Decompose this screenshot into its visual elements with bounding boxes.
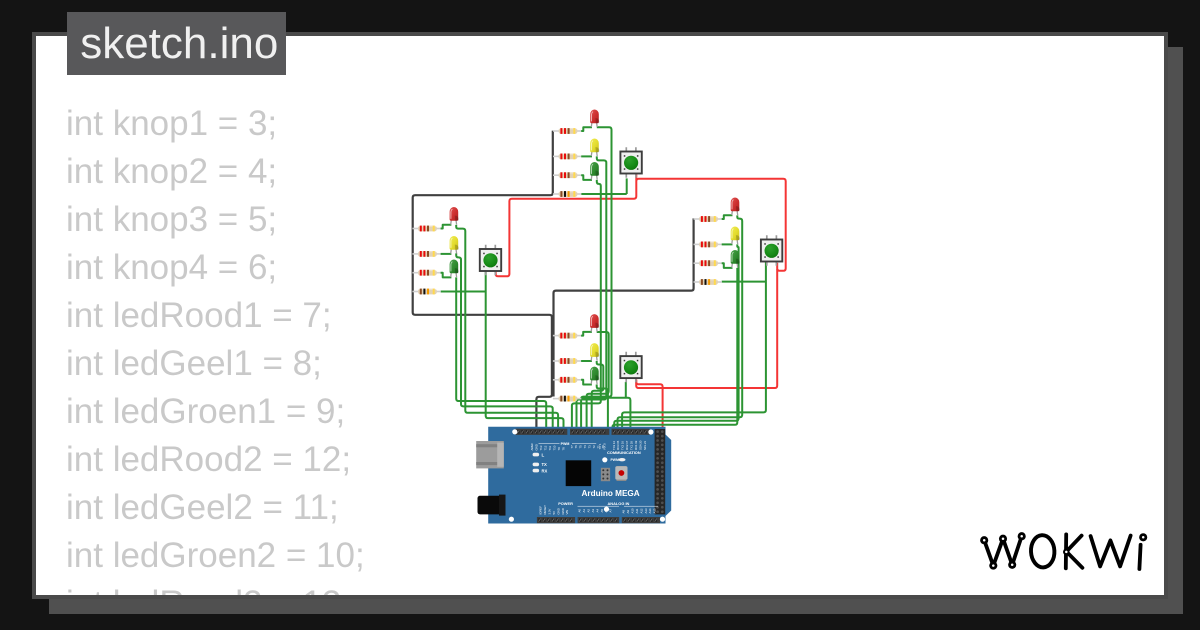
svg-text:T7: T7	[570, 445, 574, 449]
svg-text:TX3 14: TX3 14	[612, 441, 616, 450]
wire 5V left button to top button to right button	[496, 179, 786, 277]
resistor R3-right 220ohm	[694, 260, 722, 266]
svg-text:A11: A11	[635, 508, 639, 513]
yellow LED right	[731, 227, 740, 245]
wire top yellow-LED to pin	[577, 156, 607, 431]
wire top button pin	[626, 178, 628, 194]
svg-text:A9: A9	[626, 510, 630, 514]
LED indicators	[533, 453, 540, 457]
pushbutton left	[480, 245, 501, 276]
svg-text:RX: RX	[542, 468, 548, 473]
USB connector	[476, 441, 504, 468]
svg-text:GND: GND	[556, 507, 560, 514]
svg-text:T2: T2	[592, 445, 596, 449]
wire bottom yellow-LED to pin	[592, 361, 604, 431]
yellow LED bottom	[590, 343, 599, 361]
resistor R2-bottom 220ohm	[553, 358, 581, 364]
svg-text:IOREF: IOREF	[539, 506, 543, 515]
resistor R4-right 10k	[694, 279, 722, 285]
svg-text:AREF: AREF	[530, 443, 534, 451]
resistor R4-bottom 10k	[553, 396, 581, 402]
wire bottom green-LED to pin	[597, 385, 608, 432]
svg-text:PWM: PWM	[611, 458, 619, 462]
wire right green-LED to pin	[612, 268, 737, 431]
red LED left	[450, 207, 459, 225]
wire GND bus top/left groups to Arduino GND	[413, 131, 553, 431]
wire left red-LED to pin 7	[456, 225, 558, 431]
wire 5V bottom button to Arduino 5V pin	[636, 380, 662, 431]
svg-text:A13: A13	[644, 508, 648, 513]
wire bottom button pin	[625, 382, 627, 398]
svg-text:A1: A1	[582, 509, 586, 513]
svg-text:T4: T4	[583, 445, 587, 449]
wire right R2 to yellow LED	[722, 243, 733, 245]
wire bottom R2 to yellow LED	[581, 360, 592, 362]
svg-text:A15: A15	[653, 508, 657, 513]
wire left yellow-LED to pin 8	[456, 253, 553, 431]
wire top R2 to yellow LED	[581, 155, 592, 157]
wire top R1 to red LED	[581, 127, 592, 131]
wire left R3 to green LED	[441, 273, 452, 278]
red LED bottom	[590, 314, 599, 332]
svg-text:T3: T3	[588, 445, 592, 449]
resistor R2-left 220ohm	[412, 251, 440, 257]
power jack	[478, 496, 506, 515]
ICSP header	[601, 468, 610, 481]
wire bottom red-LED to pin	[587, 332, 609, 431]
green LED top	[590, 162, 599, 180]
resistor R1-right 220ohm	[694, 216, 722, 222]
svg-text:RX 0: RX 0	[602, 443, 606, 450]
svg-text:5V: 5V	[552, 511, 556, 515]
svg-text:A8: A8	[622, 510, 626, 514]
svg-text:A14: A14	[648, 508, 652, 513]
pushbutton bottom	[620, 352, 641, 383]
green LED right	[731, 250, 740, 268]
svg-text:Arduino MEGA: Arduino MEGA	[582, 489, 640, 498]
svg-text:SDA 20: SDA 20	[639, 440, 643, 450]
resistor R4-left 10k	[412, 289, 440, 295]
wire 5V right button down to bottom button	[636, 269, 777, 388]
svg-text:TX2 16: TX2 16	[621, 441, 625, 450]
svg-text:T11: T11	[548, 446, 552, 451]
Arduino MEGA board	[476, 427, 671, 524]
wire bottom R1 to red LED	[581, 332, 592, 336]
resistor R4-top 10k	[553, 191, 581, 197]
svg-text:T8: T8	[561, 447, 565, 451]
resistor R3-left 220ohm	[412, 270, 440, 276]
wire top R3 to green LED	[581, 175, 592, 180]
yellow LED left	[450, 236, 459, 254]
svg-text:VIN: VIN	[565, 510, 569, 515]
wire left R4 to button	[441, 291, 486, 293]
svg-text:A10: A10	[630, 508, 634, 513]
resistor R1-bottom 220ohm	[553, 333, 581, 339]
green LED bottom	[590, 367, 599, 385]
wire top red-LED to pin	[581, 127, 611, 431]
svg-text:T13: T13	[539, 445, 543, 450]
resistor R1-left 220ohm	[412, 226, 440, 232]
wire GND bus right group to bottom group	[554, 218, 694, 396]
resistor R3-bottom 220ohm	[553, 377, 581, 383]
svg-text:A3: A3	[591, 509, 595, 513]
wire right red-LED to pin	[618, 215, 743, 431]
svg-text:SCL 21: SCL 21	[643, 441, 647, 450]
resistor R2-right 220ohm	[694, 242, 722, 248]
green LED left	[450, 259, 459, 277]
svg-text:A2: A2	[586, 509, 590, 513]
svg-text:T10: T10	[553, 445, 557, 450]
svg-text:RX3 15: RX3 15	[616, 440, 620, 450]
svg-text:TX 1: TX 1	[598, 443, 602, 449]
resistor R1-top 220ohm	[553, 128, 581, 134]
pushbutton right	[761, 235, 782, 266]
svg-text:RX1 19: RX1 19	[634, 440, 638, 450]
wire top R4 to button	[581, 193, 627, 195]
svg-text:GND: GND	[535, 443, 539, 450]
svg-text:POWER: POWER	[558, 501, 573, 506]
wire right R4 to button	[722, 281, 766, 283]
code text	[66, 100, 365, 628]
wire left button to pin	[486, 271, 564, 431]
svg-text:L: L	[542, 452, 545, 457]
red LED right	[731, 198, 740, 216]
wire bottom R3 to green LED	[581, 380, 592, 385]
svg-text:TX1 18: TX1 18	[630, 441, 634, 450]
svg-text:T12: T12	[544, 445, 548, 450]
svg-text:TX: TX	[542, 462, 548, 467]
svg-text:T5: T5	[579, 445, 583, 449]
svg-text:A5: A5	[600, 509, 604, 513]
resistor R2-top 220ohm	[553, 154, 581, 160]
wire 5V top button pin	[635, 174, 637, 180]
wire right yellow-LED to pin	[614, 244, 738, 431]
wire right button to pin	[622, 261, 766, 431]
svg-text:3.3V: 3.3V	[547, 509, 551, 515]
wire right R3 to green LED	[722, 263, 733, 268]
mounting holes	[512, 429, 517, 434]
svg-text:ANALOG IN: ANALOG IN	[608, 501, 630, 506]
microcontroller IC	[566, 460, 592, 486]
reset button	[617, 467, 627, 480]
wire left green-LED to pin 9	[456, 277, 546, 431]
svg-text:A4: A4	[595, 509, 599, 513]
yellow LED top	[590, 138, 599, 156]
wire left R2 to yellow LED	[441, 253, 452, 255]
svg-text:A7: A7	[609, 509, 613, 513]
svg-text:GND: GND	[561, 507, 565, 514]
svg-text:A6: A6	[604, 509, 608, 513]
svg-text:A12: A12	[639, 508, 643, 513]
headers	[516, 429, 568, 435]
resistor R3-top 220ohm	[553, 172, 581, 178]
svg-text:T6: T6	[574, 445, 578, 449]
wire left R1 to red LED	[441, 225, 452, 229]
wire bottom R4 to button to pin	[581, 398, 630, 431]
pushbutton top	[620, 147, 641, 178]
svg-text:RX2 17: RX2 17	[625, 440, 629, 450]
svg-text:A0: A0	[578, 509, 582, 513]
svg-text:PWM: PWM	[561, 442, 570, 446]
wire top green-LED to pin	[572, 180, 601, 431]
red LED top	[590, 110, 599, 128]
sketch.ino tab	[67, 12, 286, 75]
wire right R1 to red LED	[722, 215, 733, 219]
svg-text:RESET: RESET	[543, 505, 547, 515]
WOKWI logo	[980, 532, 1147, 569]
svg-text:T9: T9	[557, 447, 561, 451]
